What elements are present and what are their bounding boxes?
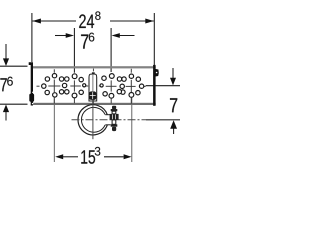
dimension 76 top leader left (55, 35, 66, 37)
clamp bolt top cap (112, 106, 116, 109)
marked hole column right centerline (110, 80, 112, 103)
sleeve tube (89, 74, 97, 101)
clamp bolt bottom cap (112, 127, 116, 131)
inkw 24: 14.90 h:13.62 (95, 11, 100, 19)
T153 START (81, 150, 87, 163)
dimension 7 right arrow down (172, 68, 174, 79)
right extra holes (117, 77, 121, 81)
clamp bolt top flange (111, 109, 118, 111)
right cross vertical centerline (130, 69, 132, 104)
clamp bolt upper neck (112, 111, 116, 114)
plate left end bracket (29, 62, 33, 105)
dimension 76 left arrow down (5, 44, 7, 59)
dimension 248 arrow right (145, 19, 154, 24)
pipe clamp inner circle (81, 107, 105, 132)
left blob highlights (32, 92, 33, 93)
dimension 248 line left segment (32, 20, 76, 22)
sleeve inner rod line (92, 75, 94, 91)
left end clamp screw blob (29, 94, 34, 102)
dimension 248 extension line left (31, 13, 33, 62)
clamp bolt lower neck (112, 120, 116, 124)
plate holes (42, 74, 144, 99)
dimension 153 extension line right (131, 98, 133, 162)
left ring holes (52, 74, 56, 78)
plate right end bracket (153, 65, 156, 106)
dimension 248 line right segment (110, 20, 154, 22)
pipe clamp outer circle (78, 105, 107, 135)
clamp upper lug (105, 114, 110, 116)
left extra holes (65, 77, 69, 81)
dimension 248 extension line right (153, 13, 155, 65)
dimension 76 left extension line top (0, 65, 28, 67)
dimension 7 right arrow up (173, 128, 175, 134)
clamp lower lug (105, 124, 110, 126)
T76TOP START (81, 34, 88, 48)
rod tip above sleeve (92, 72, 95, 74)
inkw 15: 13.81 h:13.28 (95, 147, 101, 156)
clamp vertical centerline (92, 100, 94, 139)
mounting plate bottom edge (32, 103, 156, 105)
dimension 76 left extension line bottom (0, 103, 28, 105)
dimension 153 extension line left (53, 99, 55, 163)
dimension 153 line left (63, 156, 78, 158)
right ring holes (129, 74, 133, 78)
right end clip (155, 69, 159, 77)
T76LEFT START (0, 78, 6, 91)
inkw 7: 6.39 h:13.07 (7, 77, 13, 86)
dimension 153 arrow left (55, 154, 63, 159)
dimension 76 left arrow up (5, 112, 7, 121)
clamp horizontal centerline inside (72, 119, 147, 121)
dimension 248 arrow left (32, 19, 41, 24)
T7RIGHT START (170, 98, 177, 112)
dimension 76 top extension line right (110, 28, 112, 72)
adjustment knob (89, 91, 96, 100)
left cross vertical centerline (53, 69, 55, 103)
marked hole column left centerline (73, 80, 75, 103)
threaded rod below knob (92, 100, 94, 108)
dimension 76 top arrow right (112, 33, 120, 38)
clamp bolt lower flange (111, 124, 118, 126)
clamp bolt nut (110, 114, 119, 120)
dimension 76 top arrow left (66, 33, 74, 38)
dimension 153 arrow right (124, 154, 132, 159)
inkw 7: 7.27 h:14.10 (89, 33, 95, 42)
sleeve centerline stub (92, 69, 94, 72)
dimension 76 top extension line left (73, 28, 75, 73)
dimension 7 right extension line bottom (146, 119, 180, 121)
T248 START (79, 14, 86, 28)
dimension 76 top leader right (118, 35, 135, 37)
dimension 153 line right (104, 156, 124, 158)
plate horizontal centerline (37, 85, 146, 87)
mounting plate top edge (31, 66, 156, 68)
dimension 7 right extension line top (146, 85, 180, 87)
